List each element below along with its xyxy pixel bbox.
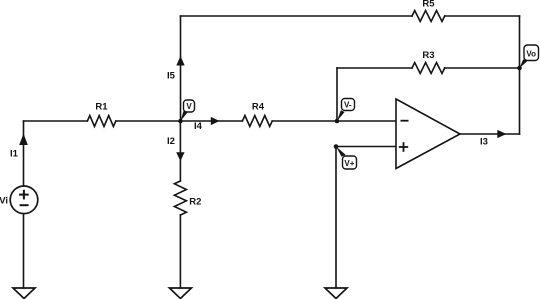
resistor R1	[87, 116, 115, 127]
svg-text:R1: R1	[95, 102, 108, 113]
wire V+ down to ground	[335, 147, 337, 289]
svg-text:R2: R2	[189, 196, 201, 207]
svg-text:R3: R3	[422, 50, 434, 61]
node Vo junction dot	[517, 66, 522, 71]
node Vo label box	[524, 45, 539, 61]
source Vi circle	[10, 186, 38, 214]
svg-text:I2: I2	[167, 136, 175, 147]
svg-text:R4: R4	[252, 102, 265, 113]
wire R3 rail right of R3	[445, 67, 520, 69]
wire V- vertical (R3 rail down to V- node)	[336, 68, 338, 121]
source Vi plus symbol	[19, 190, 29, 200]
resistor R2	[174, 181, 186, 215]
svg-text:Vi: Vi	[0, 195, 8, 206]
node V tail	[181, 111, 188, 121]
node Vo tail	[520, 59, 528, 68]
wire main middle (R1 to R4 through node V)	[116, 120, 243, 122]
svg-text:I4: I4	[194, 121, 203, 132]
op-amp minus input symbol	[401, 120, 409, 122]
arrow I3 (right)	[497, 130, 506, 138]
ground (Vi branch)	[13, 288, 35, 299]
wire output (op-amp to right vertical)	[460, 133, 520, 135]
svg-text:Vo: Vo	[526, 49, 536, 58]
svg-text:I1: I1	[10, 149, 19, 160]
source Vi minus symbol	[20, 204, 29, 206]
node V label box	[184, 100, 195, 112]
wire non-inverting input (V+ node to op-amp)	[336, 146, 396, 148]
svg-text:I5: I5	[167, 71, 176, 82]
op-amp U1	[396, 99, 460, 169]
node V- junction dot	[335, 119, 340, 124]
svg-text:I3: I3	[480, 136, 488, 147]
arrow I5 (up)	[176, 56, 184, 66]
arrow I2 (down)	[176, 152, 184, 161]
arrow I1 (up)	[19, 134, 28, 146]
wire main right (R4 to op-amp inverting input)	[272, 120, 396, 122]
wire R2 branch lower (R2 to ground)	[179, 215, 181, 288]
ground (V+ branch)	[325, 288, 347, 299]
svg-text:V: V	[186, 102, 192, 111]
wire R2 branch upper (node V to R2)	[179, 121, 181, 181]
svg-text:R5: R5	[422, 0, 435, 10]
wire R3 rail left of R3	[337, 67, 412, 69]
node V junction dot	[178, 119, 183, 124]
ground (R2 branch)	[169, 288, 191, 299]
node V+ junction dot	[334, 144, 339, 149]
wire right vertical (top rail down to output)	[519, 16, 521, 134]
node V- label box	[342, 99, 355, 111]
op-amp plus input symbol	[399, 142, 408, 152]
wire top rail left of R5	[181, 15, 413, 17]
wire I5 branch (node V up to top rail)	[180, 16, 182, 121]
wire left vertical lower (Vi source to ground)	[23, 214, 25, 289]
svg-text:V+: V+	[344, 159, 354, 168]
node V+ tail	[336, 147, 346, 157]
node V+ label box	[343, 156, 357, 169]
node V- tail	[337, 110, 345, 121]
resistor R5	[412, 11, 445, 22]
wire top rail right of R5	[445, 15, 520, 17]
arrow I4 (right)	[211, 117, 220, 125]
resistor R4	[242, 116, 272, 127]
wire left vertical upper (corner to Vi source)	[23, 121, 25, 186]
wire main left (corner to R1)	[24, 120, 88, 122]
resistor R3	[412, 63, 445, 74]
svg-text:V-: V-	[344, 101, 352, 110]
